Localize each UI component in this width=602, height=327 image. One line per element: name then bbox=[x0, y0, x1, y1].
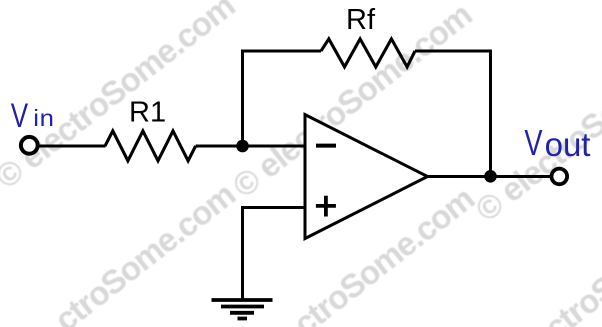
wire: node A up and right to Rf bbox=[243, 51, 322, 148]
svg-text:in: in bbox=[33, 106, 54, 131]
op-amp U1 bbox=[305, 115, 428, 239]
op-amp U1 inverting input minus sign bbox=[316, 144, 336, 148]
label Vin bbox=[11, 96, 55, 134]
junction node A bbox=[236, 140, 249, 153]
svg-text:out: out bbox=[545, 126, 591, 163]
svg-text:Rf: Rf bbox=[346, 4, 376, 36]
wire: Rf right to output node B bbox=[415, 51, 491, 176]
junction node B bbox=[484, 170, 497, 183]
label Vout bbox=[524, 122, 590, 163]
op-amp U1 non-inverting input plus sign bbox=[316, 196, 336, 217]
ground bbox=[212, 300, 273, 319]
terminal: Vin input circle bbox=[21, 137, 38, 154]
wire: op-amp output to Vout terminal bbox=[428, 175, 552, 178]
wire: R1 to op-amp inverting input (node A) bbox=[196, 145, 305, 148]
svg-text:V: V bbox=[524, 122, 543, 163]
resistor Rf bbox=[321, 39, 415, 67]
resistor R1 bbox=[105, 131, 196, 161]
wire: op-amp plus input to ground bbox=[243, 208, 306, 301]
terminal: Vout output circle bbox=[552, 169, 568, 185]
svg-text:V: V bbox=[11, 96, 29, 134]
wire: Vin terminal to R1 bbox=[39, 145, 106, 148]
svg-text:R1: R1 bbox=[129, 97, 166, 129]
